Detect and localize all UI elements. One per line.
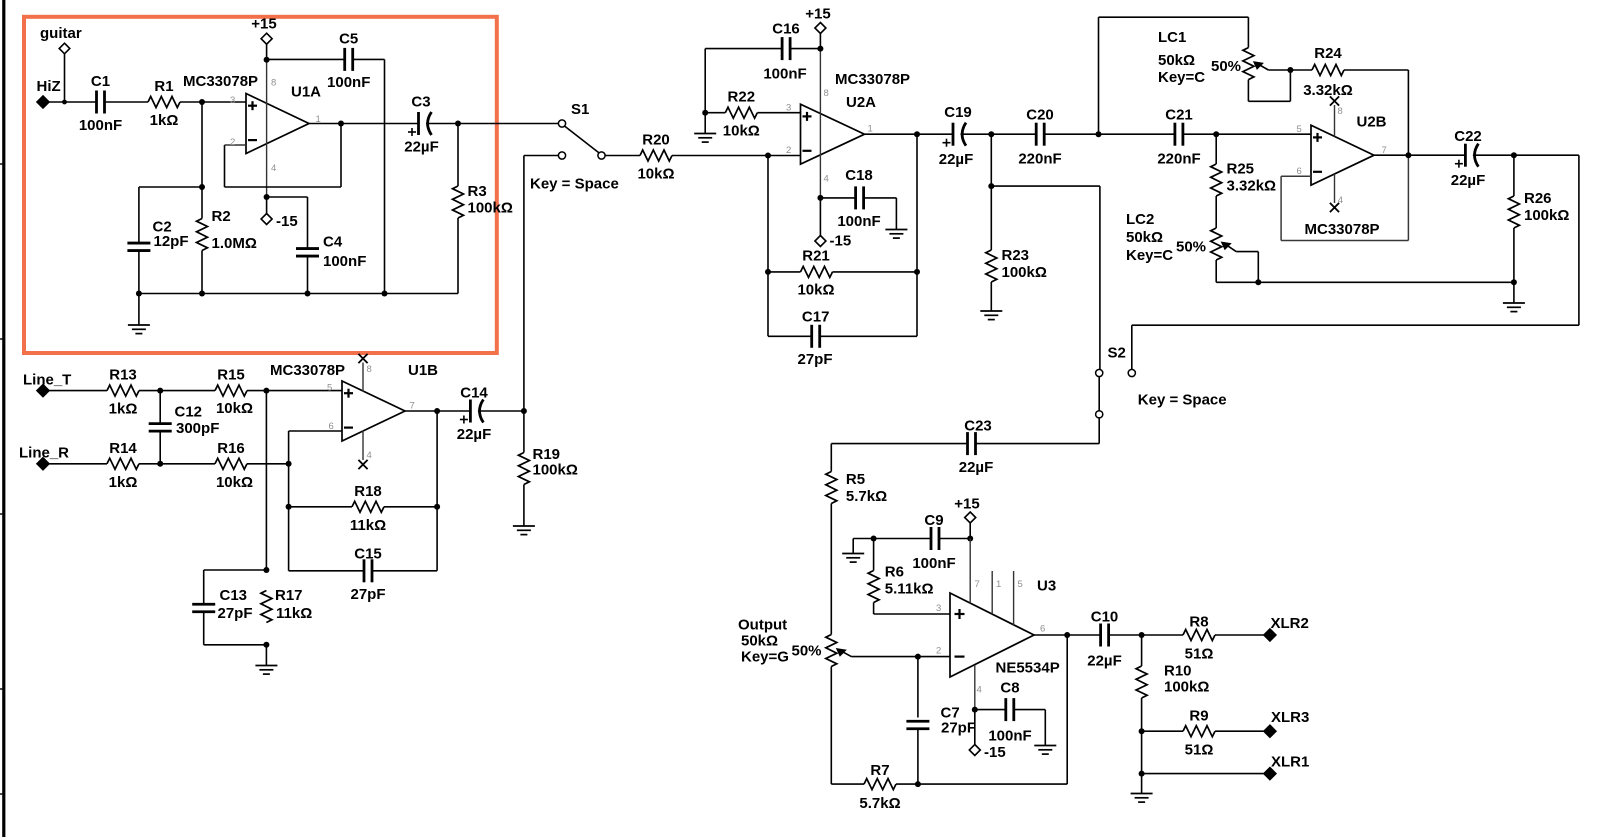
wire C2 to ground rail [138, 251, 140, 294]
svg-text:U1B: U1B [408, 362, 438, 379]
op-amp U1A [246, 94, 309, 154]
svg-text:8: 8 [1338, 106, 1343, 117]
svg-text:U2A: U2A [846, 94, 876, 111]
svg-text:S1: S1 [571, 101, 589, 118]
junction R13/C12 node [157, 388, 163, 394]
no-connect X pin8 U2B [1330, 96, 1339, 105]
resistor R22 [725, 107, 757, 118]
svg-text:-15: -15 [276, 213, 298, 230]
svg-text:guitar: guitar [40, 25, 82, 42]
wire XLR1 [1142, 773, 1264, 775]
svg-text:6: 6 [1040, 624, 1045, 635]
pin stub U3 pin7 [969, 539, 971, 604]
junction U1A pin4/-15 node [264, 194, 270, 200]
resistor R3 [453, 186, 464, 218]
svg-text:27pF: 27pF [218, 605, 253, 622]
capacitor C12 [149, 422, 172, 425]
wire stage1 ground rail [139, 293, 458, 295]
resistor R9 [1183, 726, 1215, 737]
wire R26 bottom lead [1513, 228, 1515, 282]
wire HiZ to C1 [49, 101, 97, 103]
svg-text:Key=C: Key=C [1126, 247, 1173, 264]
capacitor C15 [363, 559, 366, 582]
wire R6 top lead [873, 539, 875, 571]
wire U2B feedback loop [1281, 155, 1408, 240]
resistor R20 [640, 150, 672, 161]
ground (R26) [1503, 302, 1525, 304]
svg-text:U1A: U1A [291, 83, 321, 100]
svg-text:C15: C15 [354, 546, 382, 563]
svg-text:22µF: 22µF [457, 426, 492, 443]
svg-text:100kΩ: 100kΩ [1524, 207, 1569, 224]
wire to -15 connector (U1A) [266, 197, 268, 214]
pin stub U3 pin1 [991, 571, 993, 614]
svg-text:R22: R22 [728, 89, 756, 106]
svg-text:C8: C8 [1000, 680, 1019, 697]
svg-text:R20: R20 [642, 132, 670, 149]
wire R23 to ground [990, 282, 992, 311]
svg-text:51Ω: 51Ω [1185, 646, 1214, 663]
junction R21 left [765, 269, 771, 275]
junction rail/R2 [199, 291, 205, 297]
power -15 connector (U3) [969, 745, 980, 756]
resistor R18 [352, 501, 384, 512]
junction R7/C7/output leg [915, 781, 921, 787]
svg-text:Key = Space: Key = Space [1138, 392, 1227, 409]
wire C7 bottom lead [917, 729, 919, 784]
svg-text:7: 7 [1382, 145, 1387, 156]
svg-text:11kΩ: 11kΩ [276, 605, 312, 622]
resistor R5 [826, 472, 837, 504]
resistor R23 [986, 250, 997, 282]
wire C14 to R19 node [478, 410, 524, 412]
junction U1B output node [434, 408, 440, 414]
wire C22 to R26 node [1473, 154, 1514, 156]
svg-text:C18: C18 [845, 167, 873, 184]
svg-text:3.32kΩ: 3.32kΩ [1227, 178, 1277, 195]
svg-text:10kΩ: 10kΩ [637, 166, 674, 183]
resistor R15 [215, 385, 247, 396]
connector XLR1 (filled diamond) [1264, 768, 1276, 780]
junction C13/R17 bottom [263, 642, 269, 648]
svg-text:R21: R21 [802, 247, 830, 264]
svg-text:XLR2: XLR2 [1271, 615, 1309, 632]
junction U3 pin4/C8 node [972, 707, 978, 713]
svg-text:R18: R18 [354, 483, 382, 500]
wire R17 node to ground [265, 645, 267, 666]
svg-text:C3: C3 [411, 94, 430, 111]
wire C13 bottom leg [204, 612, 267, 645]
wire U2A feedback right vertical [916, 134, 918, 336]
svg-text:100kΩ: 100kΩ [468, 200, 513, 217]
wire LC2 to R26 ground rail [1216, 281, 1514, 283]
capacitor C2 [127, 242, 150, 245]
pin stub U3 pin5 [1013, 571, 1015, 625]
wire R16 to inverting node [247, 463, 289, 465]
wire C8 left lead [975, 709, 1006, 711]
sheet border tick marks [0, 163, 3, 165]
junction R9 node [1139, 728, 1145, 734]
svg-text:R2: R2 [212, 208, 231, 225]
svg-text:R14: R14 [109, 440, 137, 457]
svg-text:22µF: 22µF [959, 459, 994, 476]
svg-text:C21: C21 [1165, 107, 1193, 124]
svg-text:MC33078P: MC33078P [183, 73, 258, 90]
svg-text:5.7kΩ: 5.7kΩ [846, 488, 887, 505]
svg-text:100nF: 100nF [988, 728, 1031, 745]
junction C13/R17 top [263, 567, 269, 573]
svg-text:100nF: 100nF [323, 253, 366, 270]
wire feedback bottom to U3 output [918, 635, 1067, 784]
wire U1A feedback loop [225, 124, 342, 188]
svg-text:Key=G: Key=G [741, 649, 789, 666]
svg-text:50%: 50% [792, 643, 822, 660]
wire -15 node to C4 [267, 197, 308, 249]
ground (R23) [980, 310, 1002, 312]
ground (stage 1) [128, 324, 150, 326]
wire U2B output [1374, 154, 1465, 156]
junction XLR1 node [1139, 771, 1145, 777]
wire C9 node to ground [852, 539, 854, 554]
svg-text:U2B: U2B [1357, 114, 1387, 131]
wire R22 node to ground [704, 113, 706, 134]
svg-text:50%: 50% [1211, 58, 1241, 75]
sheet border line [2, 0, 5, 837]
wire Output wiper to U3 pin2 [851, 656, 950, 658]
svg-text:C1: C1 [91, 73, 110, 90]
ground (output) [1131, 793, 1153, 795]
svg-text:+15: +15 [805, 6, 830, 23]
wire S1 lower throw to U1B output node [524, 156, 559, 412]
wire R26 top lead [1513, 155, 1515, 196]
ground (C18) [885, 229, 907, 231]
wire R25 top lead [1215, 134, 1217, 164]
wire LC1 wiper to R24 node [1268, 69, 1290, 71]
pin stub U1B pin8 [362, 363, 364, 392]
switch S2 pole contact [1096, 411, 1103, 418]
wire C13 top leg [204, 570, 267, 604]
svg-text:C20: C20 [1026, 107, 1054, 124]
wire R22 left lead [705, 112, 725, 114]
switch S1 lower throw contact [558, 152, 565, 159]
svg-text:R5: R5 [846, 471, 865, 488]
svg-text:10kΩ: 10kΩ [723, 123, 760, 140]
wire Line_R to R14 [49, 463, 107, 465]
svg-text:5: 5 [327, 383, 332, 394]
capacitor C14 (polarized) [469, 400, 472, 423]
wire R10 top lead [1141, 635, 1143, 666]
wire C4 to ground rail [307, 256, 309, 294]
svg-text:MC33078P: MC33078P [835, 71, 910, 88]
connector XLR3 (filled diamond) [1264, 725, 1276, 737]
resistor R24 [1312, 65, 1344, 76]
wire R6 to U3 pin3 [874, 603, 950, 615]
switch S2 blade [1098, 377, 1100, 411]
svg-text:100nF: 100nF [912, 555, 955, 572]
wire R7 right lead [896, 783, 918, 785]
wire LC2 bottom lead [1215, 260, 1217, 282]
wire Output pot bottom to R7 [831, 667, 864, 785]
svg-text:R16: R16 [217, 440, 245, 457]
svg-text:10kΩ: 10kΩ [797, 282, 834, 299]
wire C18 right to ground [864, 198, 897, 230]
wire R19 top lead [523, 411, 525, 453]
svg-text:10kΩ: 10kΩ [216, 400, 253, 417]
svg-text:50kΩ: 50kΩ [1158, 52, 1195, 69]
potentiometer LC1 wiper [1256, 63, 1268, 70]
wire LC1 top loop [1099, 17, 1249, 47]
no-connect X pin4 U1B [358, 460, 367, 469]
svg-text:3.32kΩ: 3.32kΩ [1303, 82, 1353, 99]
capacitor C3 (polarized) [417, 112, 420, 135]
junction U2A pin4/C18 node [817, 195, 823, 201]
junction R18 right [434, 504, 440, 510]
op-amp U1B [342, 381, 405, 441]
resistor R14 [107, 458, 139, 469]
svg-text:LC1: LC1 [1158, 29, 1186, 46]
svg-text:5: 5 [1297, 124, 1302, 135]
wire R1 node down to R2 [201, 102, 203, 219]
junction R2 top node [199, 184, 205, 190]
svg-text:C23: C23 [964, 418, 992, 435]
wire rail to ground [138, 294, 140, 326]
capacitor C10 [1099, 624, 1102, 647]
svg-text:27pF: 27pF [350, 586, 385, 603]
wire guitar stub [64, 54, 66, 102]
resistor R26 [1508, 196, 1519, 228]
junction rail/C2 [136, 291, 142, 297]
wire R19 to ground [523, 485, 525, 527]
resistor R8 [1183, 630, 1215, 641]
svg-text:27pF: 27pF [941, 720, 976, 737]
wire C3 to S1 [426, 123, 558, 125]
junction R21 right [914, 269, 920, 275]
wire C12 bottom lead [159, 431, 161, 464]
svg-text:Key = Space: Key = Space [530, 176, 619, 193]
potentiometer Output body [826, 635, 837, 667]
wire EQ output loop to S2 [1132, 155, 1579, 369]
wire C9 right lead [939, 538, 970, 540]
wire R21 right lead [833, 271, 918, 273]
wire R24 left lead [1290, 69, 1312, 71]
capacitor C7 [906, 720, 929, 723]
junction U1B inverting branch [286, 461, 292, 467]
svg-text:C14: C14 [460, 385, 488, 402]
svg-text:C13: C13 [220, 587, 248, 604]
svg-text:R6: R6 [885, 564, 904, 581]
svg-text:R9: R9 [1189, 708, 1208, 725]
capacitor C8 [1004, 698, 1007, 721]
svg-text:R17: R17 [275, 587, 303, 604]
power +15 connector (U1A) [261, 33, 272, 44]
pin stub U2B pin8 [1334, 105, 1336, 137]
pin stub U1B pin4 [362, 431, 364, 461]
svg-text:MC33078P: MC33078P [270, 362, 345, 379]
wire C18 left lead [820, 197, 855, 199]
pin stub U1A pin2 [225, 144, 247, 146]
wire C13/R17 branch down [265, 391, 267, 570]
svg-text:Key=C: Key=C [1158, 69, 1205, 86]
connector Line_R (filled diamond) [37, 458, 49, 470]
junction U2A inverting node [765, 153, 771, 159]
wire XLR1 node to ground [1141, 774, 1143, 794]
junction C16/R22/ground node [702, 110, 708, 116]
svg-text:6: 6 [1297, 166, 1302, 177]
svg-text:R15: R15 [217, 367, 245, 384]
svg-text:8: 8 [271, 78, 276, 89]
svg-text:4: 4 [977, 685, 982, 696]
potentiometer LC1 body [1243, 48, 1254, 80]
wire C1 to R1 [105, 101, 149, 103]
svg-text:LC2: LC2 [1126, 211, 1154, 228]
junction LC2 wiper/bottom node [1255, 279, 1261, 285]
wire U2A feedback left vertical [767, 156, 769, 337]
resistor R17 [261, 591, 272, 623]
wire to XLR1 node [1141, 731, 1143, 773]
power +15 connector (U2A) [815, 23, 826, 34]
junction U2A output node [914, 131, 920, 137]
switch S1 pole contact [598, 152, 605, 159]
wire R24 to U2B output [1344, 70, 1408, 155]
pin stub U1A supply pins 8-4 [266, 60, 268, 197]
wire C23 right lead [976, 443, 1100, 445]
capacitor C9 [930, 527, 933, 550]
wire R15 to U1B pin5 [247, 390, 342, 392]
svg-text:NE5534P: NE5534P [996, 660, 1060, 677]
ground (C8) [1034, 745, 1056, 747]
junction U3 output node [1064, 632, 1070, 638]
svg-text:100kΩ: 100kΩ [1164, 679, 1209, 696]
junction U2B output node [1405, 152, 1411, 158]
wire R8 to XLR2 [1215, 634, 1264, 636]
svg-text:100nF: 100nF [763, 66, 806, 83]
svg-text:C16: C16 [772, 21, 800, 38]
op-amp U2B [1311, 125, 1374, 185]
svg-text:U3: U3 [1037, 578, 1056, 595]
junction C19/C20/R23 node [988, 131, 994, 137]
wire to -15 connector (U3) [974, 710, 976, 745]
capacitor C5 [343, 48, 346, 71]
wire R3 to ground rail [457, 218, 459, 294]
junction +15/C5 node [264, 57, 270, 63]
svg-text:220nF: 220nF [1157, 151, 1200, 168]
svg-text:10kΩ: 10kΩ [216, 474, 253, 491]
junction R15/C13 node [263, 388, 269, 394]
svg-text:50kΩ: 50kΩ [1126, 229, 1163, 246]
svg-text:7: 7 [975, 579, 980, 590]
capacitor C17 [810, 325, 813, 348]
svg-text:5: 5 [1018, 579, 1023, 590]
svg-text:R24: R24 [1314, 45, 1342, 62]
svg-text:2: 2 [786, 145, 791, 156]
wire R18 right lead [384, 506, 437, 508]
junction LC1 wiper/R24 node [1287, 67, 1293, 73]
svg-text:C19: C19 [944, 104, 972, 121]
capacitor C18 [854, 186, 857, 209]
wire R14 to R16 [139, 463, 215, 465]
wire R26 node to ground [1513, 282, 1515, 303]
svg-text:C10: C10 [1091, 609, 1119, 626]
capacitor C20 [1035, 123, 1038, 146]
pin stub U2B pin4 [1334, 174, 1336, 203]
wire R25 to LC2 [1215, 196, 1217, 228]
wire R18 left lead [289, 506, 352, 508]
svg-text:R7: R7 [870, 762, 889, 779]
capacitor C13 [192, 603, 215, 606]
wire Line_T to R13 [49, 390, 107, 392]
svg-text:HiZ: HiZ [37, 78, 61, 95]
resistor R1 [148, 97, 180, 108]
svg-text:Line_T: Line_T [23, 372, 71, 389]
svg-text:7: 7 [410, 401, 415, 412]
svg-text:R3: R3 [468, 183, 487, 200]
power -15 connector (U1A) [261, 214, 272, 225]
svg-text:4: 4 [824, 174, 829, 185]
potentiometer LC2 wiper [1224, 243, 1236, 251]
svg-text:100nF: 100nF [327, 74, 370, 91]
svg-text:-15: -15 [984, 744, 1006, 761]
svg-text:C4: C4 [323, 234, 343, 251]
resistor R19 [518, 453, 529, 485]
svg-text:3: 3 [230, 95, 235, 106]
junction U1A output node [338, 121, 344, 127]
resistor R21 [801, 266, 833, 277]
svg-text:300pF: 300pF [176, 420, 219, 437]
svg-text:Output: Output [738, 617, 787, 634]
wire C20 to C21 [1044, 133, 1175, 135]
connector Line_T (filled diamond) [37, 385, 49, 397]
wire U1B output [405, 410, 470, 412]
svg-text:S2: S2 [1108, 345, 1126, 362]
svg-text:R26: R26 [1524, 190, 1552, 207]
capacitor C19 (polarized) [952, 123, 955, 146]
wire C15 left lead [289, 570, 364, 572]
wire stage2 output to S2 [991, 186, 1100, 369]
junction C20/C21/LC1 node [1096, 131, 1102, 137]
svg-text:1: 1 [868, 124, 873, 135]
svg-text:MC33078P: MC33078P [1305, 221, 1380, 238]
junction R18 left [286, 504, 292, 510]
junction R23/S2 tap node [988, 183, 994, 189]
power +15 connector (U3) [965, 512, 976, 523]
svg-text:R23: R23 [1002, 247, 1030, 264]
svg-text:R1: R1 [154, 78, 173, 95]
wire LC2 wiper down [1236, 252, 1258, 283]
svg-text:8: 8 [367, 364, 372, 375]
svg-text:1kΩ: 1kΩ [109, 401, 138, 418]
wire R2 to ground rail [201, 251, 203, 294]
ground (R19) [513, 525, 535, 527]
svg-text:50kΩ: 50kΩ [741, 633, 778, 650]
svg-text:3: 3 [786, 103, 791, 114]
potentiometer Output wiper [839, 650, 851, 657]
junction rail/C5 [382, 291, 388, 297]
junction R14/C12 node [157, 461, 163, 467]
junction +15/C9/pin7 node [967, 536, 973, 542]
orange selection box around HiZ input stage [24, 17, 497, 353]
wire U2A output [865, 133, 954, 135]
svg-text:1: 1 [996, 579, 1001, 590]
ground (R17) [255, 665, 277, 667]
svg-text:51Ω: 51Ω [1185, 742, 1214, 759]
wire R23 branch down [990, 134, 992, 250]
svg-text:27pF: 27pF [797, 351, 832, 368]
svg-text:R8: R8 [1189, 614, 1208, 631]
capacitor C1 [95, 91, 98, 114]
wire C12 top lead [159, 391, 161, 424]
junction C21/R25 node [1213, 131, 1219, 137]
svg-text:C17: C17 [802, 309, 830, 326]
